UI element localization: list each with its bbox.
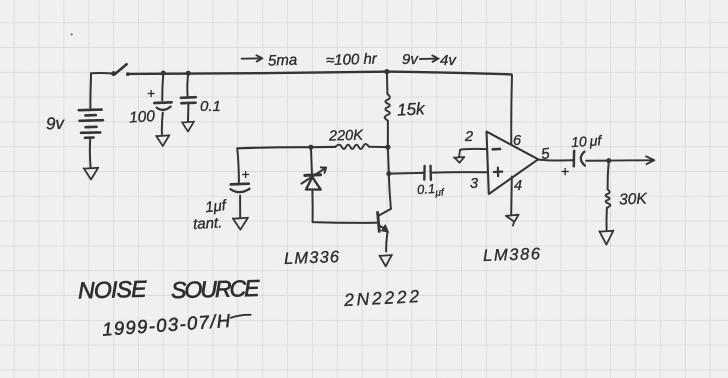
ground (battery) — [84, 168, 99, 180]
wire battery to ground — [89, 139, 92, 168]
capacitor C3 1uF tant — [231, 182, 249, 185]
plus input mark — [494, 168, 502, 177]
(speck) — [71, 33, 73, 35]
svg-text:2: 2 — [464, 129, 473, 145]
wire top rail — [129, 72, 512, 75]
switch S1 — [111, 71, 116, 76]
svg-text:4v: 4v — [440, 52, 457, 69]
svg-text:3: 3 — [470, 176, 478, 192]
svg-text:LM386: LM386 — [483, 245, 541, 265]
wire 220K rail — [237, 147, 335, 148]
wire node to C4 — [389, 172, 423, 175]
svg-text:100: 100 — [129, 108, 156, 127]
wire pin 5 output — [538, 159, 572, 162]
ground (pin 2) — [454, 150, 465, 163]
resistor R2 220K — [335, 144, 369, 149]
wire emitter to ground — [386, 233, 387, 252]
svg-text:NOISE: NOISE — [78, 276, 149, 304]
node: 15k tap — [384, 69, 389, 74]
annotation arrow 5ma — [242, 55, 263, 61]
wire C5 to output — [586, 160, 609, 162]
ground (C3) — [233, 218, 248, 230]
zener D1 LM336 — [305, 173, 321, 177]
svg-text:≈100 hr: ≈100 hr — [326, 50, 378, 69]
node: collector / C4 junction — [386, 171, 391, 176]
svg-text:tant.: tant. — [193, 214, 223, 233]
svg-text:15k: 15k — [397, 99, 427, 119]
svg-text:+: + — [561, 163, 569, 179]
svg-text:1μf: 1μf — [204, 197, 228, 216]
capacitor C1 100uF — [154, 101, 171, 104]
svg-text:9v: 9v — [46, 114, 66, 134]
capacitor C5 10uF — [573, 151, 576, 167]
node: 0.1uF tap — [186, 71, 191, 76]
wire output arrow — [609, 156, 655, 164]
node: output junction — [606, 158, 611, 163]
svg-text:220K: 220K — [328, 127, 365, 144]
wire pin 4 — [510, 177, 513, 214]
node: LM336 tap — [308, 145, 313, 150]
transistor Q1 2N2222 — [378, 212, 380, 231]
wire rail corner to pin 6 — [510, 74, 513, 144]
node: 100uF tap — [161, 71, 166, 76]
ground (pin 4) — [506, 215, 519, 226]
ground (C1) — [156, 135, 169, 146]
wire pin 2 — [460, 149, 487, 150]
svg-text:4: 4 — [514, 178, 522, 194]
wire node to D1 — [311, 147, 312, 173]
wire rail to C1 — [162, 73, 163, 100]
svg-text:0.1: 0.1 — [200, 98, 221, 115]
op-amp U1 LM386 — [487, 132, 539, 194]
wire to C3 — [237, 148, 239, 182]
node: R1/R2/collector junction — [385, 145, 390, 150]
svg-text:30K: 30K — [619, 191, 648, 209]
svg-text:5ma: 5ma — [268, 52, 298, 70]
minus input mark — [493, 148, 500, 151]
resistor R3 30K — [608, 161, 609, 190]
svg-text:SOURCE: SOURCE — [171, 275, 262, 303]
svg-text:LM336: LM336 — [284, 248, 340, 268]
ground (C2) — [182, 121, 194, 131]
svg-text:+: + — [147, 85, 155, 101]
wire D1 to base — [312, 190, 376, 223]
svg-text:9v: 9v — [402, 51, 419, 68]
svg-text:+: + — [242, 166, 250, 182]
ground (Q1) — [380, 255, 392, 266]
wire collector up — [388, 147, 391, 209]
ground (R3) — [599, 231, 613, 245]
battery B1 9v — [79, 110, 103, 138]
wire battery top to switch — [90, 73, 113, 110]
wire C4 to pin 3 — [432, 171, 486, 173]
wire rail to C2 — [186, 73, 189, 96]
resistor R1 15k — [386, 72, 389, 94]
capacitor C2 0.1 — [181, 96, 196, 99]
svg-text:6: 6 — [513, 133, 522, 149]
capacitor C4 0.1uF — [423, 166, 426, 180]
